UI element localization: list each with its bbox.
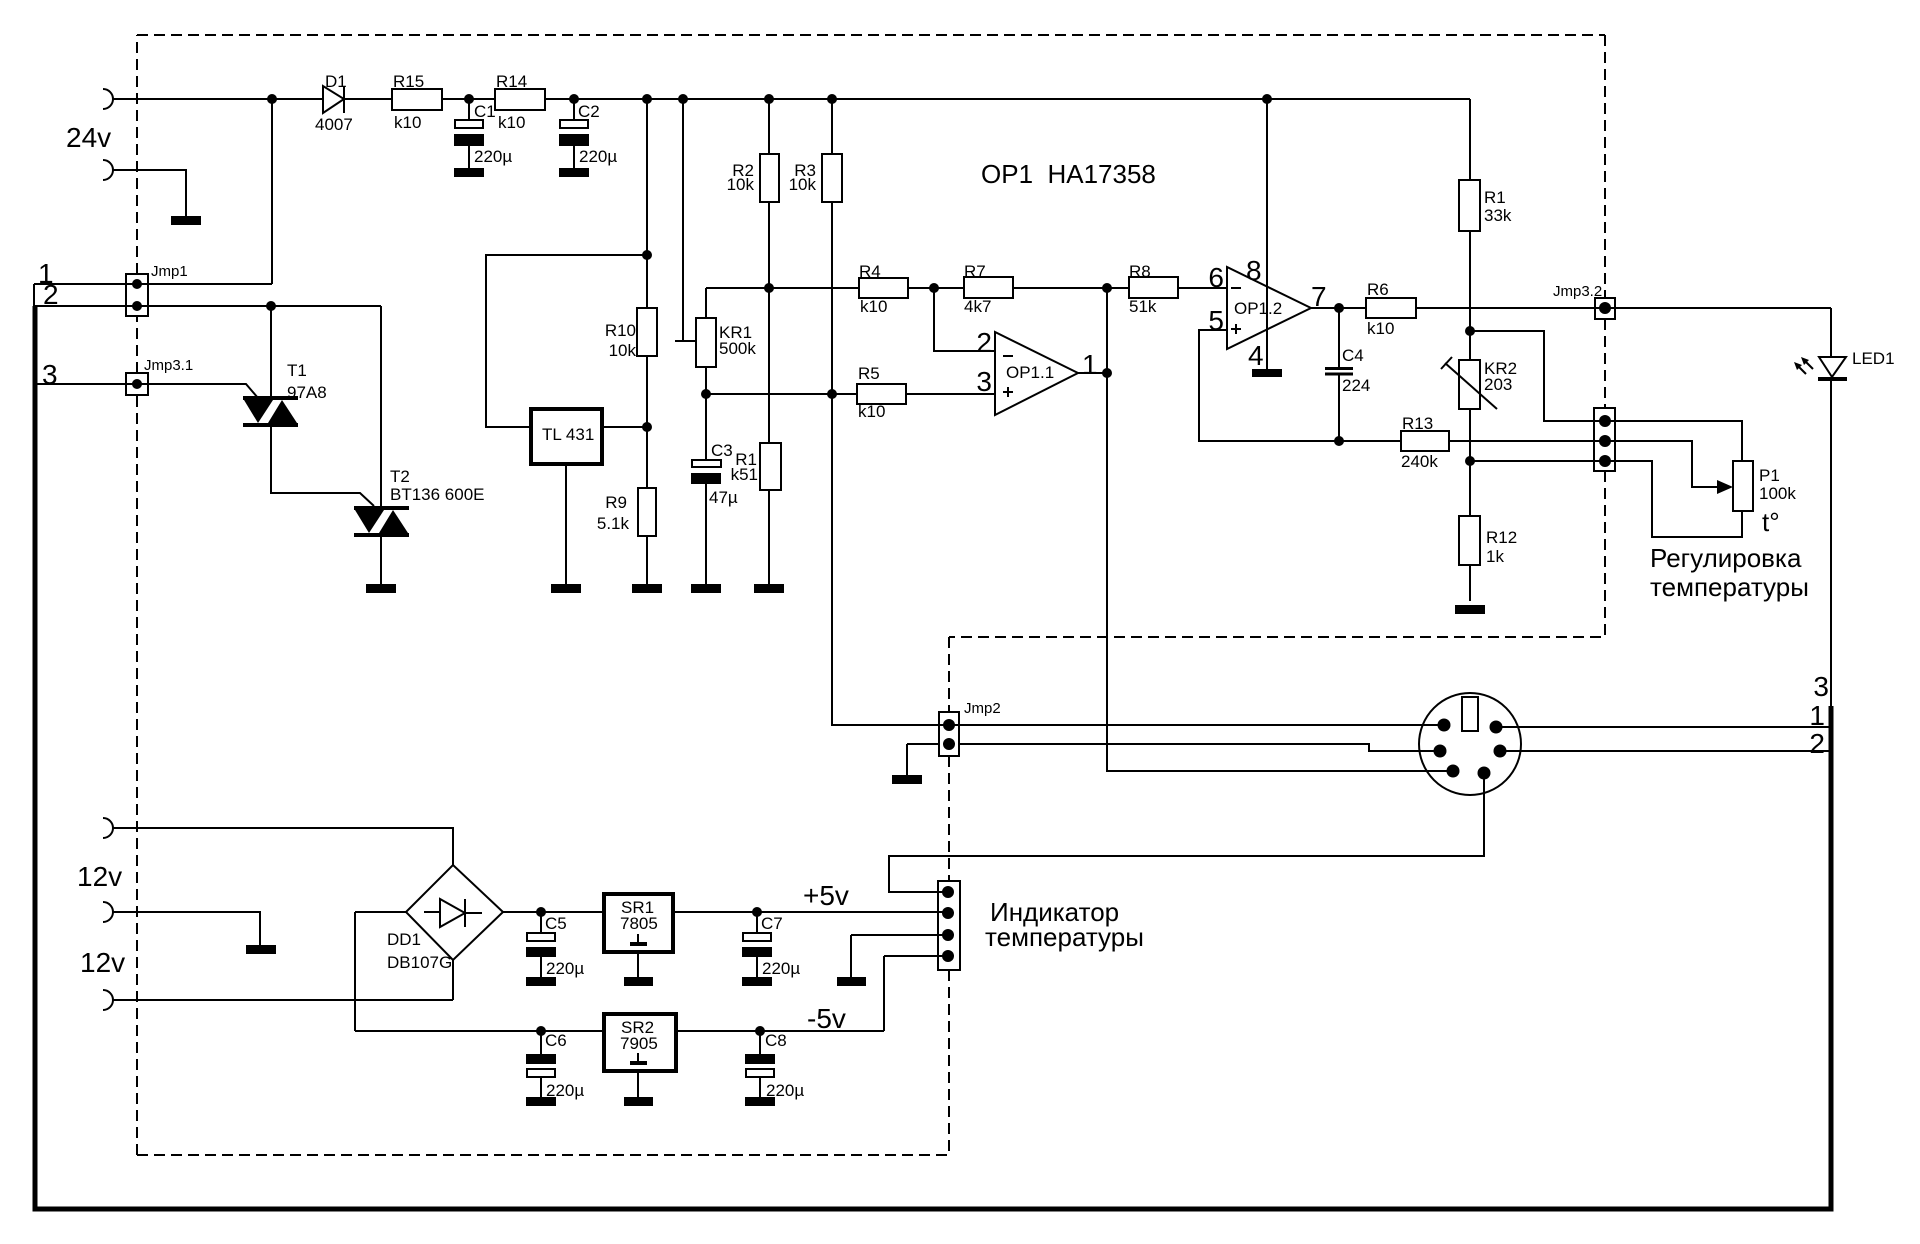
svg-text:R1: R1	[1484, 188, 1506, 207]
svg-text:224: 224	[1342, 376, 1370, 395]
svg-text:C7: C7	[761, 914, 783, 933]
svg-text:4007: 4007	[315, 115, 353, 134]
svg-text:2: 2	[976, 327, 992, 358]
svg-text:5.1k: 5.1k	[597, 514, 630, 533]
svg-text:температуры: температуры	[985, 922, 1144, 952]
svg-text:24v: 24v	[66, 122, 111, 153]
svg-text:R15: R15	[393, 72, 424, 91]
svg-text:220µ: 220µ	[762, 959, 800, 978]
svg-text:+5v: +5v	[803, 880, 849, 911]
svg-text:12v: 12v	[77, 861, 122, 892]
svg-text:P1: P1	[1759, 466, 1780, 485]
svg-text:7905: 7905	[620, 1034, 658, 1053]
svg-text:R9: R9	[605, 493, 627, 512]
svg-text:10k: 10k	[727, 175, 755, 194]
svg-text:500k: 500k	[719, 339, 756, 358]
svg-text:1: 1	[1082, 349, 1098, 380]
svg-text:4k7: 4k7	[964, 297, 991, 316]
svg-text:D1: D1	[325, 72, 347, 91]
svg-text:1: 1	[1809, 700, 1825, 731]
svg-text:BT136 600E: BT136 600E	[390, 485, 485, 504]
svg-text:3: 3	[976, 366, 992, 397]
svg-text:220µ: 220µ	[766, 1081, 804, 1100]
svg-text:R10: R10	[605, 321, 636, 340]
svg-text:Регулировка: Регулировка	[1650, 543, 1802, 573]
svg-text:k10: k10	[860, 297, 887, 316]
svg-text:Jmp1: Jmp1	[151, 263, 188, 280]
svg-text:203: 203	[1484, 375, 1512, 394]
svg-text:-5v: -5v	[807, 1003, 846, 1034]
svg-text:4: 4	[1248, 340, 1264, 371]
svg-text:12v: 12v	[80, 947, 125, 978]
svg-text:7: 7	[1311, 281, 1327, 312]
svg-text:47µ: 47µ	[709, 488, 738, 507]
svg-text:DD1: DD1	[387, 930, 421, 949]
svg-text:7805: 7805	[620, 914, 658, 933]
svg-text:T1: T1	[287, 361, 307, 380]
svg-text:k10: k10	[1367, 319, 1394, 338]
svg-text:OP1 HA17358: OP1 HA17358	[981, 159, 1156, 189]
svg-text:6: 6	[1208, 262, 1224, 293]
svg-text:LED1: LED1	[1852, 349, 1895, 368]
svg-text:Jmp3.2: Jmp3.2	[1553, 283, 1602, 300]
svg-text:240k: 240k	[1401, 452, 1438, 471]
svg-text:DB107G: DB107G	[387, 953, 452, 972]
svg-text:R8: R8	[1129, 262, 1151, 281]
svg-text:3: 3	[1813, 671, 1829, 702]
svg-text:97A8: 97A8	[287, 383, 327, 402]
svg-text:C2: C2	[578, 102, 600, 121]
svg-text:k10: k10	[858, 402, 885, 421]
svg-text:220µ: 220µ	[474, 147, 512, 166]
svg-text:3: 3	[42, 359, 58, 390]
svg-text:33k: 33k	[1484, 206, 1512, 225]
svg-text:R5: R5	[858, 364, 880, 383]
svg-text:OP1.2: OP1.2	[1234, 299, 1282, 318]
svg-text:C1: C1	[474, 102, 496, 121]
svg-text:TL 431: TL 431	[542, 425, 594, 444]
svg-text:1k: 1k	[1486, 547, 1504, 566]
svg-text:C3: C3	[711, 441, 733, 460]
svg-text:k10: k10	[498, 113, 525, 132]
svg-text:R14: R14	[496, 72, 527, 91]
svg-text:Jmp2: Jmp2	[964, 700, 1001, 717]
svg-text:8: 8	[1246, 255, 1262, 286]
svg-text:10k: 10k	[789, 175, 817, 194]
svg-text:51k: 51k	[1129, 297, 1157, 316]
svg-text:220µ: 220µ	[579, 147, 617, 166]
svg-text:10k: 10k	[609, 341, 637, 360]
svg-text:C4: C4	[1342, 346, 1364, 365]
svg-text:R4: R4	[859, 262, 881, 281]
svg-text:t°: t°	[1762, 507, 1780, 537]
svg-text:2: 2	[43, 279, 59, 310]
svg-text:OP1.1: OP1.1	[1006, 363, 1054, 382]
svg-text:C8: C8	[765, 1031, 787, 1050]
svg-text:T2: T2	[390, 467, 410, 486]
svg-text:k10: k10	[394, 113, 421, 132]
svg-text:температуры: температуры	[1650, 572, 1809, 602]
svg-text:220µ: 220µ	[546, 1081, 584, 1100]
svg-text:2: 2	[1809, 728, 1825, 759]
svg-text:R12: R12	[1486, 528, 1517, 547]
svg-text:5: 5	[1208, 305, 1224, 336]
svg-text:R13: R13	[1402, 414, 1433, 433]
svg-text:R7: R7	[964, 262, 986, 281]
svg-text:C6: C6	[545, 1031, 567, 1050]
svg-text:C5: C5	[545, 914, 567, 933]
svg-text:100k: 100k	[1759, 484, 1796, 503]
svg-text:220µ: 220µ	[546, 959, 584, 978]
svg-text:R6: R6	[1367, 280, 1389, 299]
svg-text:k51: k51	[731, 465, 758, 484]
svg-text:Jmp3.1: Jmp3.1	[144, 357, 193, 374]
